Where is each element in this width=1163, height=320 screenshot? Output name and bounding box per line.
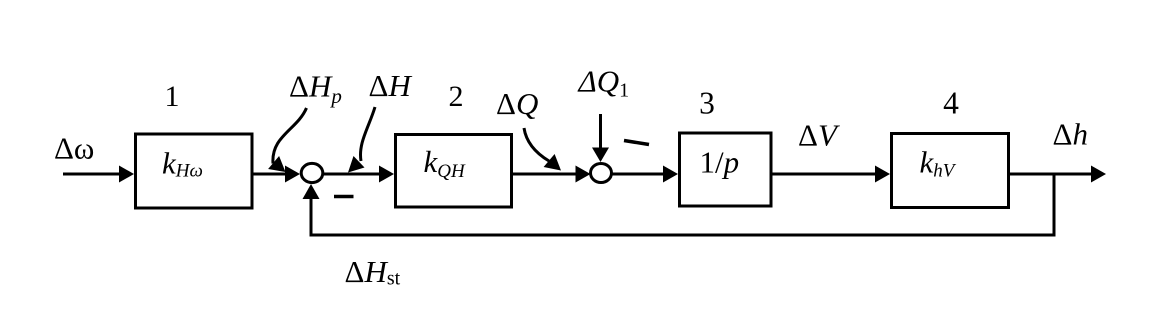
minus sign (junction 1)	[334, 195, 354, 199]
block 2	[396, 135, 512, 208]
block 4	[892, 134, 1009, 208]
block 3	[680, 133, 772, 206]
svg-text:4: 4	[943, 86, 959, 121]
wire: junction1 → block2	[323, 166, 394, 183]
wire: block3 → block4	[771, 166, 890, 183]
summing junction 1	[301, 163, 323, 182]
wire: output arrow Δh	[1009, 166, 1106, 183]
svg-text:ΔV: ΔV	[798, 118, 840, 153]
block 1	[136, 134, 253, 208]
wire: junction2 → block3	[612, 166, 679, 183]
wire: block2 → junction2	[513, 166, 591, 183]
curved arrow ΔH_p	[268, 108, 306, 172]
arrow ΔQ1 down into junction 2	[592, 114, 609, 162]
arrowhead: feedback up into junction 1	[303, 184, 320, 199]
wire: feedback line	[311, 174, 1054, 235]
svg-text:3: 3	[699, 86, 715, 121]
svg-text:ΔQ: ΔQ	[496, 86, 538, 121]
svg-text:Δω: Δω	[54, 131, 94, 166]
summing junction 2	[591, 164, 612, 183]
svg-text:2: 2	[449, 80, 464, 113]
svg-text:ΔH: ΔH	[369, 68, 413, 103]
curved arrow ΔH	[348, 107, 375, 173]
svg-text:Δh: Δh	[1053, 117, 1088, 152]
svg-text:1: 1	[165, 80, 180, 113]
svg-text:1/p: 1/p	[700, 145, 740, 180]
curved arrow ΔQ	[524, 128, 561, 171]
wire: block1 → junction1	[253, 166, 300, 183]
minus sign (junction 2)	[624, 141, 649, 145]
wire: input arrow into block 1	[63, 166, 134, 183]
